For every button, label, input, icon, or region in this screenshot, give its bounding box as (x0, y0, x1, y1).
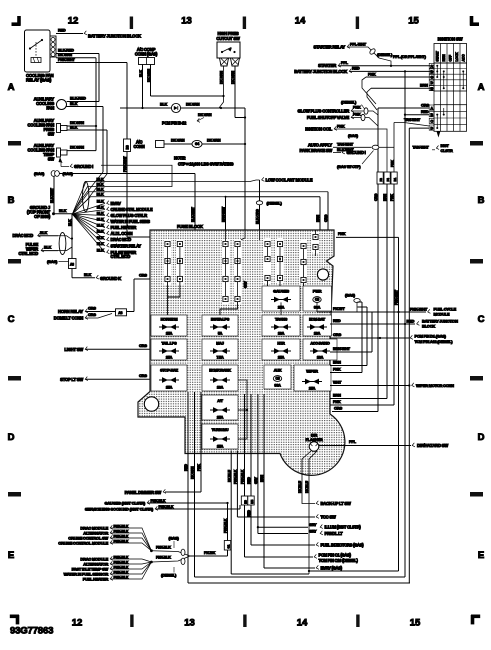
wire PNK-BLK (DIESEL) converge line (151, 556, 190, 578)
fuse block mounting hole left (144, 397, 158, 411)
wire BLK ground bundle to low coolant branch (72, 177, 259, 214)
svg-text:GRY: GRY (309, 529, 317, 533)
connectors F3 F4 B1 (377, 172, 397, 184)
wires column pair 1 to horn/dm fuse (168, 282, 180, 315)
border corner mark top-right (470, 16, 479, 26)
fuse breaker AUX 30A (264, 365, 291, 389)
wire BLK-ORG low coolant into fuse block (256, 180, 283, 240)
svg-text:ALDL CONN: ALDL CONN (111, 231, 133, 236)
svg-text:30A: 30A (274, 384, 281, 388)
svg-text:PNK: PNK (333, 400, 341, 404)
svg-text:FAN: FAN (46, 106, 54, 111)
svg-text:DK GRN: DK GRN (198, 113, 212, 117)
drac module / pulse wiper left labels (12, 231, 58, 256)
svg-text:DK BLU: DK BLU (305, 481, 309, 493)
fuse clip squares top right pair (313, 230, 318, 256)
svg-text:15A: 15A (166, 386, 173, 390)
border corner mark bottom-left (10, 615, 19, 624)
svg-text:DK GRN: DK GRN (207, 139, 221, 143)
ignition switch header grid (434, 44, 467, 64)
svg-text:BLK-RED: BLK-RED (70, 97, 86, 101)
svg-text:ECM-BAT: ECM-BAT (309, 318, 326, 322)
svg-text:GAUGES: GAUGES (273, 289, 289, 294)
wire TAN-WHT row D vertical (409, 128, 429, 583)
fuse F-ECM/CRANK 10A (202, 365, 238, 391)
switch S2 auxiliary cooling fan temp sw (27, 143, 67, 163)
label pcm pin b-12 (162, 113, 212, 126)
svg-text:HORN/DM: HORN/DM (161, 318, 178, 322)
connector oval left bundle (58, 233, 72, 255)
wire DK GRN a/c comp conn to y96 (147, 65, 224, 97)
svg-text:BLK: BLK (40, 231, 47, 235)
svg-text:13: 13 (181, 16, 192, 27)
wire BLK ground bundle branch to BRN-WHT drop (72, 193, 226, 215)
wire from connector right into fuse block top (60, 174, 196, 231)
labels glow plug controller / fuel shutoff valve (298, 100, 378, 127)
svg-text:BLK: BLK (97, 230, 104, 234)
svg-text:(DIESEL): (DIESEL) (267, 201, 283, 206)
wire BLK pres sw to ground bundle (67, 126, 107, 212)
svg-text:FUSE BLOCK: FUSE BLOCK (177, 224, 204, 229)
bus vertical ORG with F3 (374, 193, 379, 339)
svg-text:10A: 10A (217, 386, 224, 390)
wire BLK ground bundle long branch to fuse block ORG drop (72, 188, 328, 215)
fuse F-HTR 25A (262, 339, 300, 360)
svg-text:ORG: ORG (88, 307, 96, 311)
switch S1 auxiliary cooling fan pres sw (27, 118, 67, 137)
svg-text:BRN: BRN (316, 214, 320, 222)
svg-text:TRANS: TRANS (275, 318, 288, 322)
svg-text:WHT: WHT (333, 381, 342, 385)
svg-text:IGNITION COIL: IGNITION COIL (305, 126, 332, 131)
svg-text:BATTERY JUNCTION BLOCK: BATTERY JUNCTION BLOCK (88, 34, 141, 39)
svg-text:(GAS): (GAS) (345, 294, 356, 298)
label ground I right BLK-WHT (333, 148, 374, 169)
svg-text:CTP = 16,000 LBS GVW RATING: CTP = 16,000 LBS GVW RATING (178, 162, 233, 167)
bus vertical BRN with F4 (383, 184, 387, 399)
svg-text:25A: 25A (217, 416, 224, 420)
svg-text:ORG: ORG (139, 374, 147, 378)
svg-text:NOTE:: NOTE: (174, 156, 186, 161)
label back-up lt sw (316, 501, 351, 506)
grid row letters left (8, 82, 15, 561)
wire PNK-BLK through H3 (241, 394, 313, 557)
svg-text:RUN: RUN (442, 54, 446, 62)
svg-text:AUX: AUX (274, 369, 282, 373)
svg-text:(GAS): (GAS) (47, 259, 58, 264)
svg-text:ORG: ORG (139, 344, 147, 348)
svg-text:PNK-WHT: PNK-WHT (123, 156, 127, 172)
row BRN upper (330, 307, 367, 366)
svg-text:(GAS W/ CTP): (GAS W/ CTP) (337, 164, 361, 169)
svg-text:PWR: PWR (313, 289, 322, 294)
svg-text:DRAC MOD: DRAC MOD (12, 233, 33, 238)
svg-text:BLK: BLK (84, 273, 91, 277)
svg-text:PNK: PNK (337, 124, 345, 128)
wire RED ignition block 2 row B (405, 110, 429, 115)
fuse F-MAJ 7.5A (202, 339, 238, 360)
svg-text:RED: RED (333, 319, 341, 323)
svg-text:CUTOUT SW: CUTOUT SW (216, 36, 239, 41)
connector B3 (124, 139, 131, 152)
svg-text:BLK-ORG: BLK-ORG (256, 209, 260, 224)
fuse F-GAUGES 25A (262, 286, 300, 311)
svg-text:IGNITION SW: IGNITION SW (438, 37, 464, 42)
connector H3 (241, 496, 247, 505)
svg-text:PNK: PNK (353, 106, 361, 110)
svg-text:D: D (8, 432, 15, 443)
grid dash marks right (470, 141, 483, 497)
labels stack 2 diesel (64, 555, 152, 581)
svg-text:OF ENG): OF ENG) (34, 214, 51, 219)
svg-text:GROUND I: GROUND I (347, 150, 366, 155)
svg-text:C: C (478, 314, 485, 325)
wire BRN into fuse block top right (316, 197, 320, 230)
wire PPL flasher to dir/hazard sw (319, 440, 448, 448)
svg-text:GROUND K: GROUND K (100, 276, 121, 281)
svg-text:15: 15 (410, 618, 421, 629)
svg-text:BLK: BLK (139, 70, 143, 77)
svg-text:BLK-WHT: BLK-WHT (191, 206, 195, 222)
svg-text:RED: RED (58, 29, 66, 33)
fuse F-TRANS 10A (262, 315, 300, 336)
svg-text:F4: F4 (386, 178, 390, 182)
svg-text:MAJ: MAJ (216, 342, 224, 346)
svg-text:PNK-BLK: PNK-BLK (159, 505, 174, 509)
svg-text:TCM PIN C16 (DIESEL): TCM PIN C16 (DIESEL) (319, 558, 359, 563)
svg-text:WIPER: WIPER (306, 370, 318, 374)
label low coolant module (262, 177, 313, 182)
note text gvw rating (174, 156, 233, 167)
svg-text:15A: 15A (217, 445, 224, 449)
svg-text:BRN: BRN (333, 394, 341, 398)
connector a/c conn with G4 (133, 139, 245, 150)
connector oval over ground bundle (83, 182, 89, 212)
svg-text:LIGHT SW: LIGHT SW (64, 347, 83, 352)
ground J node and label (27, 205, 72, 219)
svg-text:BRN: BRN (420, 84, 428, 88)
svg-text:START: START (436, 50, 440, 61)
row PNK upper (330, 302, 362, 373)
wire GRY to illum and prndl (254, 394, 317, 534)
svg-text:FUEL SHUTOFF VALVE: FUEL SHUTOFF VALVE (307, 115, 350, 120)
svg-text:WATER IN FUEL SENS: WATER IN FUEL SENS (111, 219, 151, 224)
svg-text:A: A (8, 82, 15, 93)
svg-text:GRY: GRY (309, 523, 317, 527)
fuse F-WIPER 25A (294, 365, 331, 391)
fuse clip squares column pair 1 (165, 241, 183, 281)
wire BLK-RED relay to aux cooling fan (56, 49, 99, 102)
wire BRN to evrv (260, 394, 315, 568)
svg-text:CRUISE CTRL MODULE: CRUISE CTRL MODULE (111, 207, 153, 212)
labels illum / prndl lt (320, 525, 361, 537)
grid tick marks bottom (130, 615, 359, 628)
svg-text:(GAS): (GAS) (348, 134, 359, 138)
ignition switch title (438, 37, 464, 42)
wire PNK-WHT relay down to connector B3 (56, 58, 127, 139)
svg-text:SW: SW (48, 132, 55, 137)
svg-text:EVRV: EVRV (111, 201, 122, 206)
svg-text:TAN-WHT: TAN-WHT (404, 118, 421, 122)
svg-text:G4: G4 (195, 142, 199, 146)
svg-text:BLK: BLK (97, 193, 104, 197)
grid row letters right (478, 82, 485, 561)
svg-text:FUEL HEATER: FUEL HEATER (83, 576, 109, 581)
label tcc sw (316, 514, 336, 519)
svg-text:BLK: BLK (97, 188, 104, 192)
svg-text:PNK-BLK: PNK-BLK (156, 556, 171, 560)
wire RED through M4 to fuel injectors (247, 394, 315, 545)
svg-text:HORN RELAY: HORN RELAY (58, 309, 83, 314)
svg-text:BLK: BLK (97, 199, 104, 203)
svg-text:PCM PIN B-12: PCM PIN B-12 (162, 121, 187, 126)
svg-text:ORG: ORG (324, 214, 328, 222)
svg-text:PNK-BLK: PNK-BLK (151, 499, 166, 503)
wire BLK ground bundle to ground I branch (72, 165, 172, 214)
svg-text:F3: F3 (379, 178, 383, 182)
svg-text:PRNDL LT: PRNDL LT (325, 531, 344, 536)
svg-text:B: B (8, 195, 15, 206)
drawing number 93G77863 (10, 626, 53, 637)
svg-text:PNK: PNK (333, 368, 341, 372)
svg-text:A3: A3 (118, 311, 122, 315)
fuse clip squares column pair 3 (265, 241, 283, 280)
fuse clip squares right column (301, 243, 306, 288)
svg-text:ACC: ACC (462, 54, 466, 62)
ground I symbol left (61, 163, 93, 169)
svg-text:PNK: PNK (390, 194, 394, 201)
row ORG pcm pin d1 (330, 333, 453, 344)
svg-text:ORG: ORG (421, 103, 429, 107)
svg-text:RED: RED (184, 464, 188, 471)
wire DK GRN relay to pres sw (56, 53, 97, 151)
row PK-WT fuel cycle module (330, 306, 457, 316)
svg-text:PARK BRAKE SW: PARK BRAKE SW (299, 148, 332, 153)
svg-text:ORG: ORG (374, 193, 378, 201)
row RED battery junction block (330, 318, 458, 328)
inline connector pair (GAS)-(GAS) (34, 171, 73, 177)
svg-text:15: 15 (408, 16, 419, 27)
fuse F-STOP-HAZ 15A (151, 365, 187, 391)
fuse block stippled body (138, 230, 345, 475)
light sw label and wire ORG (64, 344, 150, 352)
svg-text:(DIESEL): (DIESEL) (161, 573, 177, 578)
connector A3 lower (69, 259, 77, 269)
svg-text:PNK-WHT: PNK-WHT (410, 306, 428, 311)
svg-text:BLK: BLK (97, 182, 104, 186)
relay K1 cooling fan relay (gas) box (25, 30, 51, 72)
label (GAS) stub above pk-wt (345, 294, 360, 312)
wire DK BLU flasher down frame (305, 451, 399, 574)
svg-text:ORG: ORG (88, 313, 96, 317)
svg-text:BACK-UP LT SW: BACK-UP LT SW (321, 501, 351, 506)
svg-text:12: 12 (72, 618, 83, 629)
svg-text:PK-WT: PK-WT (333, 307, 345, 311)
wire PNK-BLK (GAS) converge line (151, 536, 190, 557)
svg-text:DK GRN: DK GRN (191, 466, 195, 479)
svg-text:BRN: BRN (260, 474, 264, 482)
svg-text:ORG: ORG (139, 274, 147, 278)
svg-text:(DIESEL): (DIESEL) (341, 100, 357, 105)
wire DK GRN pres sw junction (67, 121, 96, 126)
flasher U1 dir flasher (305, 433, 322, 452)
grid column numbers top (68, 16, 420, 27)
wire ground J down to connector A3 (68, 214, 73, 259)
label tan-wht inst clstr (413, 143, 453, 153)
wire DK GRN temp sw (67, 146, 96, 151)
svg-text:STARTER RELAY: STARTER RELAY (111, 243, 142, 248)
label fuse block (177, 224, 204, 229)
fuse F-TAIL LPS 25A (151, 339, 187, 360)
svg-text:BRN-WHT: BRN-WHT (221, 206, 225, 222)
svg-text:CONN (GAS): CONN (GAS) (135, 52, 158, 57)
svg-text:SW: SW (48, 157, 55, 162)
labels gauges / service eng soon (85, 499, 240, 512)
svg-text:TAN-WHT: TAN-WHT (413, 146, 430, 150)
wire PNK to panel dimmer (165, 392, 201, 492)
wires column pair 2 down (220, 230, 248, 315)
wire pwr to pk-wt row (317, 302, 330, 312)
svg-text:PNK: PNK (390, 160, 394, 167)
svg-text:DK GRN: DK GRN (231, 71, 235, 84)
svg-text:RED: RED (247, 510, 251, 517)
row ORG lower (332, 108, 378, 412)
row WHT wiper motor conn (330, 381, 454, 389)
svg-text:E: E (8, 550, 14, 561)
svg-text:A: A (478, 82, 485, 93)
svg-text:ACC-RADIO: ACC-RADIO (310, 342, 330, 346)
svg-text:SERVICE ENG SOON IND (INST CLS: SERVICE ENG SOON IND (INST CLSTR) (85, 507, 154, 512)
svg-text:PNK-BLK: PNK-BLK (234, 469, 238, 484)
label evrv (gas) (316, 565, 342, 570)
svg-text:93G77863: 93G77863 (10, 626, 53, 637)
svg-text:TCC SW: TCC SW (321, 515, 336, 520)
svg-text:25A: 25A (166, 356, 173, 360)
label starter with wire PPL (318, 61, 434, 68)
svg-text:GRY: GRY (254, 476, 258, 484)
row BRN-WHT (330, 312, 372, 352)
svg-text:PPL: PPL (349, 440, 357, 444)
svg-text:DK GRN: DK GRN (171, 139, 185, 143)
svg-text:DK GRN: DK GRN (70, 146, 84, 150)
svg-text:PK-BK: PK-BK (204, 551, 215, 555)
svg-text:G1: G1 (226, 544, 230, 548)
fuse block mounting hole right (317, 269, 328, 280)
label fuel injectors (gas) (316, 542, 364, 547)
ground J branch labels right (107, 201, 153, 259)
svg-text:PCM PIN C1 (GAS): PCM PIN C1 (GAS) (319, 553, 352, 558)
row BRN lower (330, 394, 387, 399)
bus vertical PNK with B1 (390, 123, 394, 406)
svg-text:14: 14 (297, 618, 308, 629)
svg-text:BLK: BLK (44, 246, 51, 250)
svg-text:15A: 15A (166, 332, 173, 336)
svg-text:DOME LT CONN: DOME LT CONN (54, 316, 83, 321)
svg-text:INSTR-LPS: INSTR-LPS (211, 318, 230, 322)
white wire slots behind clip columns (164, 232, 320, 305)
svg-text:DK BLU: DK BLU (298, 481, 302, 493)
svg-text:PANEL DIMMER SW: PANEL DIMMER SW (125, 490, 162, 495)
svg-text:RED: RED (421, 110, 429, 114)
svg-text:BLK: BLK (97, 218, 104, 222)
label panel dimmer sw (125, 489, 166, 495)
svg-text:DK BLU: DK BLU (227, 470, 231, 482)
svg-text:RED: RED (407, 318, 415, 323)
wire DK GRN fuse block bottom (191, 392, 405, 577)
wire PNK-WHT below B3 into fuse block (123, 152, 150, 238)
svg-text:BLK: BLK (160, 103, 167, 107)
horn relay and dome lt conn labels (54, 309, 88, 321)
wire BLK to ground K (72, 269, 121, 281)
label ignition coil wire PNK (305, 124, 387, 172)
svg-text:DK GRN: DK GRN (70, 121, 84, 125)
svg-text:ILLUM (INST CLSTR): ILLUM (INST CLSTR) (325, 525, 362, 530)
wire gauges to trans (280, 302, 282, 315)
svg-text:BLK-RED: BLK-RED (58, 49, 74, 53)
svg-text:PNK: PNK (368, 72, 376, 76)
svg-text:DIR/HAZARD SW: DIR/HAZARD SW (417, 443, 448, 448)
svg-text:BLK-WHT: BLK-WHT (50, 187, 54, 203)
wire BRN into ignition row E (367, 84, 434, 110)
wire TAN-WHT ignition block 2 row D (394, 118, 429, 126)
svg-text:D: D (478, 432, 485, 443)
wire RED relay to battery junction block (56, 29, 87, 35)
svg-text:PNK-WHT: PNK-WHT (395, 289, 399, 305)
svg-text:BLK: BLK (59, 209, 67, 213)
svg-text:GLOW PLUG CTRLR: GLOW PLUG CTRLR (111, 213, 148, 218)
svg-text:PPL: PPL (341, 61, 349, 65)
svg-text:(DIESEL): (DIESEL) (377, 52, 393, 57)
svg-text:DK GRN: DK GRN (220, 71, 224, 84)
svg-text:(GAS): (GAS) (34, 171, 45, 176)
grid tick marks top (130, 17, 359, 30)
svg-text:FUEL HEATER: FUEL HEATER (111, 225, 137, 230)
svg-text:PNK: PNK (353, 112, 361, 116)
svg-text:5A: 5A (218, 332, 223, 336)
svg-text:PCM PIN D1 (GAS): PCM PIN D1 (GAS) (415, 333, 447, 338)
svg-text:BLOCK: BLOCK (422, 324, 435, 329)
border corner mark top-left (12, 16, 21, 26)
label cooling fan relay (gas) (26, 73, 54, 83)
svg-text:PNK: PNK (197, 464, 201, 471)
svg-text:STARTER RELAY: STARTER RELAY (314, 44, 346, 49)
svg-text:BRN: BRN (383, 193, 387, 201)
svg-text:BLK: BLK (97, 177, 104, 181)
svg-text:A/T: A/T (217, 399, 223, 403)
switch S3 high pres cutout sw (216, 31, 240, 66)
stop lt sw label and wire ORG (60, 374, 150, 382)
svg-text:OFF: OFF (449, 54, 453, 61)
svg-text:HTR: HTR (277, 342, 285, 346)
svg-text:TAN-WHT: TAN-WHT (337, 142, 354, 146)
wire DK BLU fuse block bottom (227, 451, 309, 575)
wire RED fuse block bottom (184, 392, 410, 583)
svg-text:AUTO APPLY: AUTO APPLY (308, 142, 333, 147)
wire PNK-BLK G1 up to gauges junction (224, 502, 229, 541)
svg-text:BLK: BLK (97, 224, 104, 228)
svg-text:(GAS): (GAS) (169, 536, 180, 541)
fuse F-A/T 25A (202, 395, 238, 420)
svg-text:GROUND I: GROUND I (74, 164, 93, 169)
wire BRN-WHT into fuse block top (221, 196, 320, 230)
ignition switch table block 1 (429, 63, 466, 91)
svg-text:STOP LT SW: STOP LT SW (60, 377, 83, 382)
svg-text:B: B (478, 195, 485, 206)
svg-text:13: 13 (184, 618, 195, 629)
wire PK-BK to G1 (190, 550, 228, 556)
wire ORG into fuse block top right (324, 192, 328, 230)
wire BLK a/c comp conn to diode line (139, 65, 144, 110)
